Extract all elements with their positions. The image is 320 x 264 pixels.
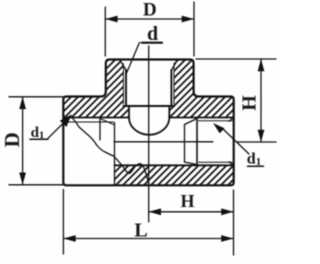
branch bore mouth chamfer left xyxy=(120,60,126,70)
right port runout vertical xyxy=(184,125,186,163)
left port thread inner thin line top xyxy=(63,121,113,123)
dome arc xyxy=(129,118,169,135)
chamber bottom line xyxy=(115,164,234,166)
chamber top line left xyxy=(63,117,129,119)
dimension H bottom: arrow right xyxy=(221,208,233,215)
dimension H bottom: dimension line xyxy=(149,211,234,213)
branch thread major thin line right xyxy=(173,64,175,105)
branch bore minor line right xyxy=(170,70,172,106)
svg-text:d1: d1 xyxy=(247,151,261,169)
dimension H right: arrow bottom xyxy=(258,130,265,142)
branch pilot bore left xyxy=(128,106,130,118)
wavy break line xyxy=(72,118,149,186)
branch thread bottom line xyxy=(123,105,174,107)
svg-text:L: L xyxy=(134,220,147,242)
label d leader xyxy=(127,42,140,72)
left port thread end vertical xyxy=(99,118,101,141)
left port runout vertical xyxy=(114,123,116,186)
svg-text:D: D xyxy=(0,132,24,147)
horizontal centerline xyxy=(114,141,213,143)
svg-text:d1: d1 xyxy=(31,125,45,142)
dimension D left: extension line bottom xyxy=(9,184,63,186)
svg-text:d: d xyxy=(147,23,158,45)
right port mouth chamfer bottom xyxy=(229,162,234,166)
right port thread inner thin line top xyxy=(199,120,233,122)
dimension H bottom: arrow left xyxy=(149,208,161,215)
hatch top band right xyxy=(169,97,233,118)
dimension D left: extension line top xyxy=(9,96,63,98)
label d1 right leader xyxy=(222,128,249,154)
label d1 right arrow xyxy=(213,123,225,133)
body outline xyxy=(63,60,233,186)
dimension D top: dimension line xyxy=(105,18,194,20)
right port thread inner thin line bottom xyxy=(199,161,233,163)
dimension D left: dimension line xyxy=(22,97,24,185)
hatch top band left xyxy=(63,97,129,118)
branch bore mouth chamfer right xyxy=(171,60,177,70)
svg-text:D: D xyxy=(143,0,157,21)
dimension D top: arrow right xyxy=(182,16,194,23)
dimension H right: arrow top xyxy=(258,59,265,71)
left port mouth chamfer top xyxy=(63,118,68,122)
dimension D top: arrow left xyxy=(105,16,117,23)
label d1 left underline xyxy=(30,138,48,140)
hatch branch right wall xyxy=(174,60,194,97)
dimension L: extension left xyxy=(62,190,64,255)
label d1 left leader xyxy=(48,116,72,139)
chamber top line right xyxy=(169,117,233,119)
dimension H bottom: extension right xyxy=(233,190,235,255)
right port runout cone top xyxy=(185,119,198,125)
dimension D top: extension line right xyxy=(193,2,195,56)
label d1 right underline xyxy=(248,165,264,167)
dimension H right: extension line bottom (centerline ext) xyxy=(237,141,276,143)
dimension L: dimension line xyxy=(63,238,233,240)
right port runout cone bottom xyxy=(185,162,198,165)
hatch branch left wall xyxy=(106,60,124,97)
dimension H right: dimension line xyxy=(260,59,262,142)
dimension H right: extension line top xyxy=(196,58,276,60)
dimension L: arrow right xyxy=(221,235,233,242)
dimension D left: arrow bottom xyxy=(19,173,26,185)
branch thread major thin line left xyxy=(122,64,124,105)
dimension L: arrow left xyxy=(63,235,75,242)
right port thread end vertical xyxy=(196,118,198,166)
hatch bottom band xyxy=(115,165,234,185)
branch bore minor line left xyxy=(125,70,127,106)
svg-text:H: H xyxy=(239,95,261,111)
left port runout cone top xyxy=(100,119,114,125)
dimension D top: extension line left xyxy=(104,7,106,56)
svg-text:H: H xyxy=(180,191,194,211)
right port mouth chamfer top xyxy=(229,118,234,122)
label d leader underline xyxy=(142,42,162,44)
dimension D left: arrow top xyxy=(19,97,26,109)
branch pilot bore right xyxy=(168,106,170,118)
vertical centerline xyxy=(148,46,150,222)
label d1 left arrow xyxy=(60,115,72,128)
